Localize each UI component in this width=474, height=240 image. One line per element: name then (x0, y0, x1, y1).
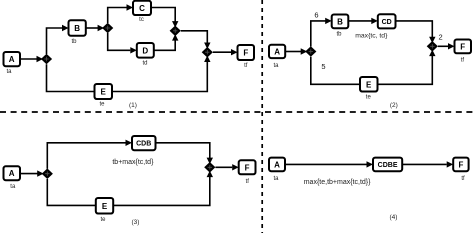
wire A to fork node (q1) (20, 56, 43, 62)
svg-text:CD: CD (382, 19, 392, 26)
wire E to join4 (q1) (112, 56, 211, 92)
dashed vertical divider (261, 0, 263, 233)
svg-text:D: D (142, 46, 148, 55)
task box D (q1) (137, 43, 154, 58)
svg-text:(2): (2) (390, 102, 398, 109)
task box F (q2) (455, 40, 472, 54)
svg-text:ta: ta (6, 69, 12, 75)
label tf (q1) (244, 63, 248, 69)
wire fork to E (q3) (47, 179, 96, 205)
svg-text:max{tc, td}: max{tc, td} (355, 32, 388, 39)
wire B to fork node 2 (q1) (86, 25, 104, 31)
caption (2) (390, 102, 398, 109)
fork node diamond (q2) (305, 46, 316, 57)
label ta (q2) (273, 63, 279, 69)
label tf (q4) (461, 176, 465, 182)
svg-text:CDB: CDB (136, 141, 151, 148)
label ta (q1) (6, 69, 12, 75)
caption (4) (390, 214, 398, 221)
label tc (q1) (139, 17, 144, 23)
task box F (q4) (453, 158, 468, 172)
label te (q2) (366, 94, 372, 100)
label tf (q2) (461, 57, 465, 63)
fork node diamond 2 (q1) (102, 23, 113, 34)
task box A (q1) (4, 52, 21, 66)
svg-text:ta: ta (10, 184, 16, 190)
svg-text:E: E (102, 202, 108, 211)
svg-text:tf: tf (246, 179, 250, 185)
task box E (q3) (96, 198, 113, 214)
wire fork2 to D (q1) (108, 33, 137, 54)
wire fork1 to E (q1) (47, 64, 95, 91)
label ta (q4) (273, 176, 279, 182)
join node diamond (q2) (427, 41, 438, 52)
task box C (q1) (133, 1, 151, 15)
wire join to F (q2) (438, 43, 455, 49)
svg-text:A: A (274, 160, 280, 169)
wire join4 to F (q1) (213, 49, 238, 55)
task box A (q3) (4, 166, 21, 180)
wire A to fork node (q3) (20, 170, 44, 176)
wire B to CD (q2) (348, 18, 378, 24)
task box F (q1) (238, 45, 255, 60)
wire E to join (q2) (378, 50, 436, 85)
caption (3) (132, 219, 140, 226)
svg-text:tc: tc (139, 17, 144, 23)
svg-text:A: A (9, 55, 15, 64)
svg-text:E: E (101, 88, 107, 97)
caption (1) (129, 102, 137, 109)
svg-text:tf: tf (461, 176, 465, 182)
wire CDBE to F (q4) (402, 161, 453, 167)
task box E (q2) (360, 77, 378, 92)
task box A (q4) (269, 158, 285, 172)
fork node diamond (q3) (42, 168, 53, 179)
fork node diamond 1 (q1) (41, 54, 52, 65)
svg-text:F: F (458, 160, 463, 169)
svg-text:A: A (9, 169, 15, 178)
task box B (q2) (332, 15, 349, 29)
svg-text:te: te (99, 101, 105, 107)
svg-text:td: td (142, 61, 147, 67)
wire A to CDBE (q4) (285, 161, 373, 167)
weight label 2 (q2) (439, 32, 443, 41)
join node diamond 3 (q1) (170, 26, 181, 37)
svg-text:tf: tf (461, 57, 465, 63)
task box B (q1) (69, 20, 86, 36)
svg-text:F: F (243, 49, 248, 58)
svg-text:ta: ta (273, 176, 279, 182)
wire E to join (q3) (113, 171, 213, 206)
join node diamond 4 (q1) (202, 47, 213, 58)
svg-text:(3): (3) (132, 219, 140, 226)
svg-text:B: B (337, 17, 343, 26)
svg-text:te: te (366, 94, 372, 100)
wire fork2 to C (q1) (108, 4, 133, 23)
weight label 6 (q2) (314, 11, 318, 20)
wire A to fork node (q2) (285, 48, 307, 54)
wire fork to E (q2) (311, 57, 360, 85)
label td (q1) (142, 61, 147, 67)
svg-text:(1): (1) (129, 102, 137, 109)
svg-text:max{te,tb+max{tc,td}}: max{te,tb+max{tc,td}} (304, 179, 371, 186)
wire join to F (q3) (215, 164, 238, 170)
label max{te,tb+max{tc,td}} (q4) (304, 179, 371, 186)
wire CDB to join node (q3) (156, 143, 214, 164)
label tb (q2) (336, 31, 342, 37)
merged task box CD (q2) (378, 14, 396, 28)
svg-text:5: 5 (321, 62, 325, 71)
label max{tc, td} (q2) (355, 32, 388, 39)
wire D to join node 3 (q1) (154, 34, 179, 50)
svg-text:6: 6 (314, 11, 318, 20)
svg-text:A: A (274, 47, 280, 56)
merged task box CDBE (q4) (373, 158, 402, 172)
wire fork to B (q1) (47, 25, 69, 54)
wire CD to join node (q2) (396, 21, 436, 43)
join node diamond (q3) (204, 162, 215, 173)
svg-text:F: F (460, 43, 465, 52)
dashed horizontal divider (0, 111, 474, 113)
svg-text:CDBE: CDBE (378, 162, 398, 169)
task box A (q2) (269, 45, 285, 58)
svg-text:te: te (100, 217, 106, 223)
svg-text:E: E (366, 80, 372, 89)
weight label 5 (q2) (321, 62, 325, 71)
task box E (q1) (95, 84, 113, 99)
svg-text:F: F (245, 163, 250, 172)
merged task box CDB (q3) (132, 136, 156, 150)
label te (q1) (99, 101, 105, 107)
svg-text:C: C (139, 4, 145, 13)
svg-text:B: B (74, 24, 80, 33)
wire fork to B (q2) (311, 18, 332, 47)
svg-text:ta: ta (273, 63, 279, 69)
svg-text:tb: tb (71, 39, 77, 45)
task box F (q3) (239, 160, 256, 174)
svg-text:2: 2 (439, 32, 443, 41)
label ta (q3) (10, 184, 16, 190)
label te (q3) (100, 217, 106, 223)
label tf (q3) (246, 179, 250, 185)
svg-text:tb+max{tc,td}: tb+max{tc,td} (112, 159, 154, 166)
label tb+max{tc,td} (q3) (112, 159, 154, 166)
wire join3 to join node 4 (q1) (181, 31, 211, 49)
wire fork to CDB (q3) (47, 140, 132, 169)
svg-text:tf: tf (244, 63, 248, 69)
svg-text:tb: tb (336, 31, 342, 37)
svg-text:(4): (4) (390, 214, 398, 221)
label tb (q1) (71, 39, 77, 45)
wire C to join node 3 (q1) (151, 8, 178, 28)
